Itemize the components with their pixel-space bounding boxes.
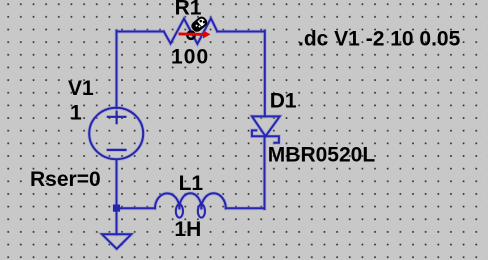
junction node bbox=[113, 205, 120, 212]
inductor L1 bbox=[155, 193, 179, 208]
svg-text:MBR0520L: MBR0520L bbox=[268, 143, 376, 166]
wire inductor to bottom-right corner bbox=[226, 207, 265, 209]
V1 minus sign bbox=[108, 149, 126, 151]
svg-text:L1: L1 bbox=[179, 172, 204, 195]
wire right vertical bottom (corner up to diode) bbox=[264, 136, 266, 209]
wire diode to top-right corner bbox=[264, 31, 266, 117]
wire resistor to top-right corner bbox=[217, 31, 264, 33]
svg-text:V1: V1 bbox=[68, 77, 94, 100]
wire left vertical (top corner to V1) bbox=[116, 31, 118, 109]
svg-text:D1: D1 bbox=[270, 90, 297, 113]
svg-text:.dc V1 -2 10 0.05: .dc V1 -2 10 0.05 bbox=[298, 28, 461, 51]
wire top-left to resistor bbox=[117, 31, 164, 33]
V1 plus sign bbox=[108, 112, 126, 124]
diode D1 triangle bbox=[252, 116, 280, 136]
svg-text:1H: 1H bbox=[174, 218, 201, 241]
svg-text:Rser=0: Rser=0 bbox=[30, 168, 101, 191]
svg-text:100: 100 bbox=[171, 45, 209, 68]
cursor: red drag arrow bbox=[179, 16, 211, 39]
resistor R1 bbox=[164, 18, 218, 44]
wire V1 to junction bbox=[116, 160, 118, 208]
cursor ring bbox=[187, 32, 194, 39]
svg-text:R1: R1 bbox=[175, 0, 202, 20]
wire junction to ground bbox=[116, 208, 118, 234]
voltage source V1 circle bbox=[89, 108, 143, 159]
cursor die body bbox=[191, 16, 208, 32]
cursor red arrow bbox=[179, 32, 204, 35]
diode D1 schottky bar bbox=[252, 130, 279, 142]
wire junction to inductor bbox=[117, 207, 156, 209]
ground bbox=[102, 234, 131, 249]
svg-text:1: 1 bbox=[70, 102, 82, 125]
